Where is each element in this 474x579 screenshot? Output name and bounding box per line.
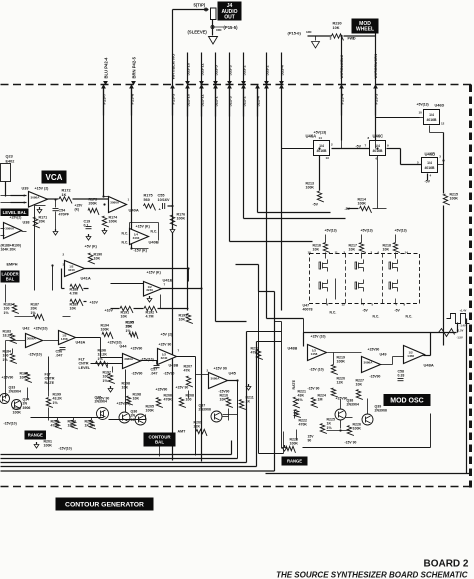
- svg-text:164K 20K: 164K 20K: [1, 248, 17, 252]
- svg-text:3086A: 3086A: [110, 201, 120, 205]
- svg-text:-15V 90: -15V 90: [345, 441, 357, 445]
- svg-text:2N3906: 2N3906: [199, 408, 211, 412]
- svg-text:470K: 470K: [164, 398, 173, 402]
- svg-text:-1.5V: -1.5V: [457, 336, 463, 340]
- svg-text:100K: 100K: [13, 411, 22, 415]
- svg-text:3240: 3240: [146, 288, 153, 292]
- svg-text:3086A: 3086A: [211, 377, 221, 381]
- svg-text:-15V(10): -15V(10): [4, 422, 17, 426]
- svg-text:1%: 1%: [4, 311, 10, 315]
- svg-text:533-11: 533-11: [199, 62, 204, 75]
- svg-text:0.1: 0.1: [84, 224, 89, 228]
- svg-text:U46B: U46B: [425, 152, 436, 157]
- svg-text:EMPH: EMPH: [7, 263, 18, 267]
- svg-text:10K: 10K: [121, 315, 128, 319]
- svg-text:U40B: U40B: [149, 240, 159, 245]
- svg-text:+5V (2): +5V (2): [161, 333, 173, 337]
- svg-text:10: 10: [419, 111, 423, 115]
- svg-text:BAL: BAL: [155, 440, 164, 445]
- svg-text:100K: 100K: [450, 197, 459, 201]
- svg-text:(K): (K): [75, 207, 80, 211]
- svg-text:+15V(10): +15V(10): [117, 402, 131, 406]
- svg-text:3240: 3240: [161, 356, 168, 360]
- svg-text:2N3904: 2N3904: [9, 390, 21, 394]
- svg-text:(P15-5): (P15-5): [224, 25, 239, 30]
- svg-text:U44: U44: [120, 345, 128, 349]
- svg-text:WHEEL: WHEEL: [356, 27, 374, 33]
- svg-text:-5V: -5V: [363, 309, 369, 313]
- svg-text:+15V (K): +15V (K): [136, 225, 150, 229]
- svg-text:-5V: -5V: [395, 309, 401, 313]
- svg-text:-15V 90: -15V 90: [308, 387, 320, 391]
- svg-text:-15V (K): -15V (K): [134, 249, 147, 253]
- svg-text:U38: U38: [23, 221, 30, 225]
- svg-text:2N3904: 2N3904: [347, 403, 359, 407]
- svg-text:533-10: 533-10: [185, 62, 190, 75]
- svg-text:10K: 10K: [349, 248, 356, 252]
- svg-text:U46A: U46A: [306, 134, 317, 139]
- svg-text:5(TIP): 5(TIP): [194, 3, 206, 8]
- svg-text:-5V: -5V: [313, 203, 319, 207]
- svg-text:3086A: 3086A: [5, 227, 15, 231]
- svg-text:+15V90: +15V90: [2, 376, 14, 380]
- svg-text:WHT/BLU/BLU: WHT/BLU/BLU: [340, 54, 344, 78]
- svg-text:12: 12: [342, 303, 346, 307]
- svg-text:90: 90: [308, 439, 312, 443]
- svg-text:N.C.: N.C.: [373, 315, 380, 319]
- svg-text:10: 10: [308, 251, 312, 255]
- svg-text:100K: 100K: [306, 186, 315, 190]
- svg-text:U46C: U46C: [373, 134, 384, 139]
- svg-text:13: 13: [326, 156, 330, 160]
- svg-text:U41B: U41B: [163, 278, 173, 283]
- svg-text:+15V 90: +15V 90: [159, 343, 172, 347]
- svg-text:GRN: GRN: [306, 31, 312, 34]
- svg-text:+15V 90: +15V 90: [176, 386, 189, 390]
- svg-text:4.7M: 4.7M: [70, 292, 78, 296]
- svg-text:LEVEL: LEVEL: [79, 366, 91, 370]
- svg-text:BRN P42-5: BRN P42-5: [131, 56, 136, 78]
- svg-text:47K: 47K: [184, 369, 191, 373]
- svg-text:1/4: 1/4: [429, 113, 434, 117]
- svg-text:533-2: 533-2: [264, 64, 269, 75]
- svg-text:3086A: 3086A: [124, 357, 134, 361]
- svg-text:BLU P42-4: BLU P42-4: [103, 57, 108, 79]
- svg-text:10K: 10K: [94, 257, 101, 261]
- svg-text:RANGE: RANGE: [287, 459, 302, 464]
- svg-text:533-4: 533-4: [279, 64, 284, 75]
- svg-text:RATE: RATE: [292, 379, 296, 389]
- svg-text:14: 14: [319, 136, 323, 140]
- svg-text:N.C.: N.C.: [122, 241, 129, 245]
- svg-text:14: 14: [405, 251, 409, 255]
- svg-text:12K: 12K: [337, 381, 344, 385]
- svg-text:U46D: U46D: [435, 104, 445, 108]
- svg-text:+5V(13): +5V(13): [395, 229, 407, 233]
- svg-text:40078: 40078: [303, 308, 313, 312]
- svg-text:-1.4V: -1.4V: [460, 324, 466, 328]
- svg-text:0.33: 0.33: [398, 374, 405, 378]
- svg-text:(P15-6): (P15-6): [288, 31, 302, 36]
- svg-text:1458: 1458: [407, 354, 414, 358]
- svg-text:C55: C55: [158, 194, 165, 198]
- svg-text:-15V (10): -15V (10): [310, 368, 324, 372]
- svg-text:4016B: 4016B: [427, 118, 438, 122]
- svg-text:100K: 100K: [290, 442, 299, 446]
- svg-text:+5V(13): +5V(13): [361, 229, 373, 233]
- svg-text:1/4: 1/4: [427, 161, 432, 165]
- svg-text:4.7M: 4.7M: [146, 315, 154, 319]
- svg-text:R230: R230: [333, 22, 342, 26]
- svg-text:N.C.: N.C.: [122, 232, 129, 236]
- svg-text:22K: 22K: [194, 425, 201, 429]
- svg-text:CONTOUR GENERATOR: CONTOUR GENERATOR: [65, 501, 144, 508]
- svg-text:BOARD 2: BOARD 2: [423, 559, 468, 570]
- svg-text:4016B: 4016B: [425, 166, 436, 170]
- svg-text:-15V90: -15V90: [370, 375, 381, 379]
- svg-text:3240: 3240: [68, 268, 75, 272]
- svg-text:ORN: ORN: [216, 29, 222, 32]
- svg-text:.047: .047: [151, 372, 158, 376]
- svg-text:533-3: 533-3: [227, 64, 232, 75]
- svg-text:4016B: 4016B: [317, 149, 328, 153]
- svg-text:Q23: Q23: [6, 155, 13, 159]
- svg-text:20K: 20K: [39, 220, 46, 224]
- svg-text:1M: 1M: [318, 398, 323, 402]
- svg-text:2N3906: 2N3906: [375, 409, 387, 413]
- svg-text:U45: U45: [229, 371, 237, 376]
- svg-text:(SLEEVE): (SLEEVE): [188, 30, 208, 35]
- svg-text:10K: 10K: [356, 383, 363, 387]
- svg-text:+15V (10): +15V (10): [311, 335, 326, 339]
- svg-text:RATE: RATE: [45, 381, 55, 385]
- svg-text:BAL: BAL: [6, 276, 15, 281]
- svg-text:+10V: +10V: [90, 301, 99, 305]
- svg-text:3: 3: [330, 37, 332, 41]
- svg-text:+15V 90: +15V 90: [214, 367, 227, 371]
- svg-text:200K: 200K: [89, 202, 98, 206]
- svg-text:U48B: U48B: [288, 347, 298, 351]
- svg-text:2N3904: 2N3904: [95, 400, 107, 404]
- svg-text:100K: 100K: [109, 220, 118, 224]
- svg-text:E402: E402: [6, 160, 15, 164]
- svg-text:3403: 3403: [133, 236, 140, 240]
- svg-text:4016B: 4016B: [373, 149, 384, 153]
- svg-text:RANGE: RANGE: [28, 433, 43, 438]
- svg-text:LEVEL BAL: LEVEL BAL: [3, 210, 27, 215]
- svg-text:1458: 1458: [311, 352, 318, 356]
- svg-text:MOD OSC: MOD OSC: [390, 398, 423, 405]
- svg-text:VCA: VCA: [46, 173, 63, 182]
- svg-text:100K: 100K: [337, 360, 346, 364]
- svg-text:WHT/BRN/ORN: WHT/BRN/ORN: [374, 53, 378, 78]
- svg-text:3086A: 3086A: [31, 195, 41, 199]
- svg-text:10K: 10K: [133, 397, 140, 401]
- svg-text:+15V90: +15V90: [368, 348, 380, 352]
- svg-text:+15V (2): +15V (2): [35, 187, 50, 191]
- svg-text:U49: U49: [380, 353, 387, 357]
- svg-text:+5V(13): +5V(13): [325, 229, 337, 233]
- svg-text:+15V (K): +15V (K): [147, 271, 161, 275]
- svg-text:WHT/BLK/VIO: WHT/BLK/VIO: [170, 54, 175, 80]
- svg-text:U39: U39: [22, 187, 29, 191]
- svg-text:U48A: U48A: [424, 363, 434, 368]
- svg-text:+5V (K): +5V (K): [85, 245, 97, 249]
- svg-text:U43A: U43A: [76, 341, 86, 345]
- svg-text:R172: R172: [62, 189, 71, 193]
- svg-text:10K: 10K: [70, 307, 77, 311]
- svg-text:-15V90: -15V90: [164, 372, 175, 376]
- svg-text:10K: 10K: [313, 248, 320, 252]
- svg-text:100K: 100K: [146, 409, 155, 413]
- svg-text:10K: 10K: [122, 386, 129, 390]
- svg-text:+15V90: +15V90: [131, 347, 143, 351]
- svg-text:+1.4V: +1.4V: [460, 309, 467, 313]
- svg-text:N.C.: N.C.: [151, 230, 158, 234]
- svg-text:3086A: 3086A: [27, 337, 37, 341]
- svg-text:-15V90: -15V90: [132, 372, 143, 376]
- svg-text:470K: 470K: [299, 423, 308, 427]
- svg-text:OUT: OUT: [224, 14, 235, 20]
- svg-text:R175: R175: [144, 194, 153, 198]
- svg-text:+5V(13): +5V(13): [417, 103, 429, 107]
- svg-text:1: 1: [353, 37, 355, 41]
- svg-text:12: 12: [441, 122, 445, 126]
- svg-text:THE SOURCE SYNTHESIZER BOARD S: THE SOURCE SYNTHESIZER BOARD SCHEMATIC: [276, 571, 468, 579]
- svg-text:10/16V: 10/16V: [158, 198, 171, 202]
- svg-text:533-5: 533-5: [213, 64, 218, 75]
- svg-text:1%: 1%: [126, 329, 132, 333]
- svg-text:AMT: AMT: [178, 430, 187, 434]
- svg-text:100K: 100K: [358, 202, 367, 206]
- svg-text:+15V(2): +15V(2): [10, 216, 22, 220]
- svg-text:100K: 100K: [101, 328, 110, 332]
- svg-text:1/4: 1/4: [319, 144, 324, 148]
- svg-text:3906: 3906: [23, 406, 31, 410]
- svg-text:U41A: U41A: [81, 276, 91, 281]
- svg-text:100K: 100K: [44, 444, 53, 448]
- svg-text:U43B: U43B: [169, 364, 179, 368]
- svg-text:560: 560: [144, 198, 150, 202]
- svg-text:-15V(10): -15V(10): [29, 353, 42, 357]
- svg-text:-15V(10): -15V(10): [59, 447, 72, 451]
- svg-text:U40A: U40A: [129, 208, 139, 213]
- svg-text:3086A: 3086A: [364, 361, 374, 365]
- svg-text:10K: 10K: [383, 248, 390, 252]
- svg-text:533-2: 533-2: [241, 64, 246, 75]
- svg-text:10K: 10K: [179, 318, 186, 322]
- svg-text:1%: 1%: [53, 401, 59, 405]
- svg-text:1%: 1%: [327, 426, 333, 430]
- svg-text:100K: 100K: [353, 427, 362, 431]
- svg-text:.047: .047: [56, 354, 63, 358]
- svg-text:10K: 10K: [333, 26, 340, 30]
- svg-text:1K: 1K: [62, 193, 67, 197]
- svg-text:U42: U42: [23, 327, 30, 331]
- svg-text:+15V90: +15V90: [156, 388, 168, 392]
- svg-text:470PF: 470PF: [59, 213, 70, 217]
- svg-text:N.C.: N.C.: [406, 315, 413, 319]
- svg-text:N.C.: N.C.: [330, 311, 337, 315]
- svg-text:+15V(10): +15V(10): [34, 327, 48, 331]
- svg-text:1458: 1458: [61, 337, 68, 341]
- svg-text:11: 11: [335, 251, 339, 255]
- svg-text:100K: 100K: [177, 217, 186, 221]
